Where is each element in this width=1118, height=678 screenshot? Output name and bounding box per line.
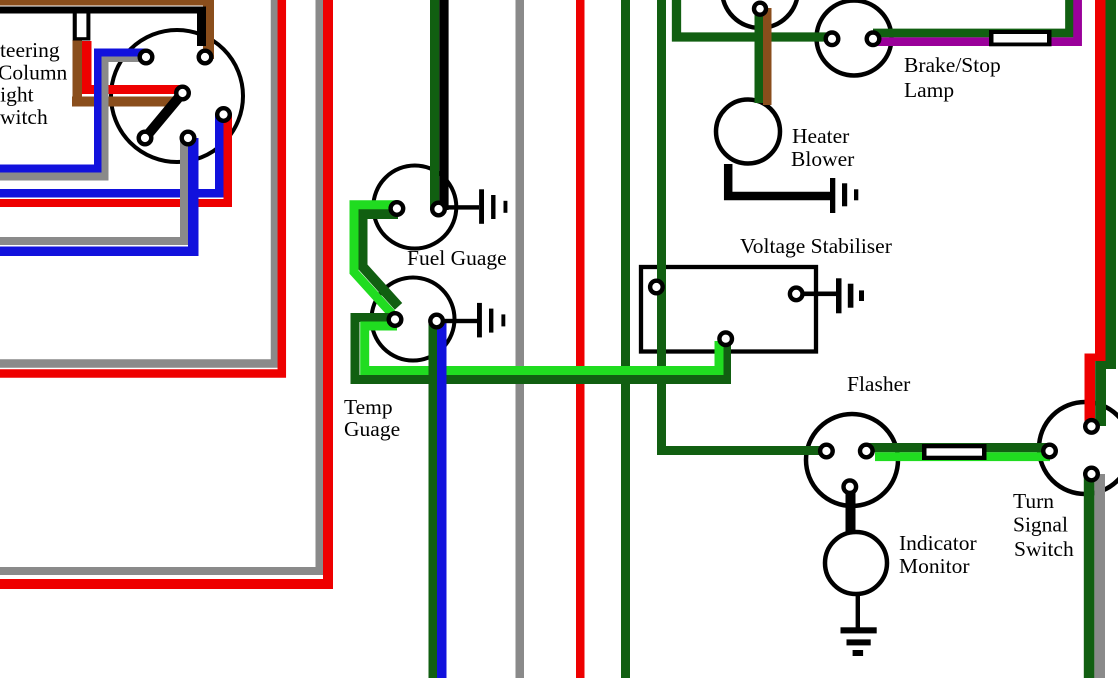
wire green right edge upper — [1106, 0, 1117, 369]
svg-text:Column: Column — [0, 60, 68, 84]
wire brown from connector down — [73, 40, 83, 102]
stabiliser pin left — [650, 281, 663, 294]
label steering column light switch — [0, 38, 68, 129]
wire gray pin 1 exit left — [0, 173, 109, 181]
flasher pin left — [820, 445, 833, 458]
ignition switch body (top, clipped) — [722, 0, 798, 28]
switch pin 2 — [199, 51, 212, 64]
wire red riser B — [0, 0, 328, 584]
wire green brake lamp to right — [873, 0, 1070, 33]
switch pin 3 — [176, 87, 189, 100]
label heater blower — [791, 124, 854, 171]
svg-text:Switch: Switch — [1014, 537, 1074, 561]
brake/stop lamp body — [817, 1, 892, 76]
wire red trunk vertical — [576, 0, 585, 678]
wire green top distribution — [677, 0, 833, 37]
heater blower ground symbol — [830, 178, 835, 213]
turn signal switch body — [1039, 402, 1118, 494]
wire purple brake lamp to right — [873, 0, 1078, 42]
wire gray turn signal down — [1094, 474, 1105, 678]
stabiliser pin bottom — [719, 332, 732, 345]
wire red from connector down — [82, 41, 92, 94]
wire green right edge lower to turn signal — [1095, 361, 1106, 426]
wire red pin 6 exit left — [0, 199, 232, 207]
temp gauge ground symbol — [477, 303, 482, 338]
wire gray switch pin 5 vertical — [180, 138, 188, 245]
wire green from temp gauge down — [429, 322, 438, 678]
stabiliser pin right — [790, 288, 803, 301]
svg-text:Fuel Guage: Fuel Guage — [407, 246, 507, 270]
flasher pin bottom — [844, 480, 857, 493]
temp gauge pin right — [430, 315, 443, 328]
wire brown feed top horizontal — [0, 0, 214, 6]
flasher body — [806, 414, 898, 506]
wire red switch pin 6 vertical — [224, 114, 233, 207]
brake lamp pin left — [826, 33, 839, 46]
wire green bundle fuel to temp bright — [354, 205, 398, 315]
wire gray riser A — [0, 0, 275, 364]
wire blue pin 6 exit left — [0, 189, 224, 198]
switch pin 1 — [140, 51, 153, 64]
wire gray riser B — [0, 0, 320, 571]
brake lamp pin right — [867, 33, 880, 46]
wire black to fuel gauge — [439, 0, 448, 210]
fuel gauge body — [373, 166, 456, 249]
label indicator monitor — [899, 531, 977, 578]
wire blue from temp gauge down — [437, 322, 447, 678]
stabiliser ground symbol — [836, 278, 842, 313]
temp gauge pin left — [389, 313, 402, 326]
wire green flasher to turn signal bright — [875, 452, 1050, 461]
svg-text:Temp: Temp — [344, 395, 393, 419]
wire blue switch pin 6 vertical — [215, 114, 224, 198]
turn signal pin left — [1043, 445, 1056, 458]
svg-text:Brake/Stop: Brake/Stop — [904, 53, 1001, 77]
wire green bundle temp to stabiliser bright — [365, 326, 719, 371]
svg-text:Turn: Turn — [1013, 489, 1054, 513]
wire blue switch pin 1 horizontal — [94, 49, 146, 57]
wire brown ignition to heater — [763, 8, 772, 105]
wire blue switch pin 5 vertical — [188, 138, 199, 256]
svg-text:Blower: Blower — [791, 147, 854, 171]
wire gray switch pin 1 horizontal — [102, 55, 147, 62]
wire green bundle temp to stabiliser dark — [355, 318, 727, 380]
fuse flasher circuit — [922, 444, 987, 460]
wire green trunk vertical 2 to flasher — [662, 0, 827, 451]
wire gray pin 5 exit left — [0, 237, 188, 245]
svg-text:Flasher: Flasher — [847, 372, 910, 396]
stabiliser ground wire — [800, 292, 836, 297]
svg-text:Light: Light — [0, 83, 34, 107]
wire green bundle fuel to temp dark — [363, 214, 399, 306]
ignition pin — [754, 3, 766, 15]
svg-text:Switch: Switch — [0, 105, 48, 129]
wire brown to switch centre — [72, 97, 175, 107]
wire green ignition to heater — [755, 8, 764, 103]
indicator monitor ground wire — [856, 594, 860, 629]
wire blue pin 1 exit left — [0, 165, 102, 173]
heater blower body — [716, 100, 780, 164]
turn signal pin top — [1085, 420, 1098, 433]
svg-text:Signal: Signal — [1013, 513, 1068, 537]
wire gray trunk vertical — [516, 0, 525, 678]
switch pin 5 — [182, 132, 195, 145]
wire gray pin 1 vertical — [102, 55, 109, 177]
switch lever — [145, 93, 183, 138]
label turn signal switch — [1013, 489, 1074, 561]
wire brown drop to switch pin 2 — [203, 4, 214, 59]
wire black drop to switch pin 2 — [197, 13, 206, 46]
wire red right edge lower to turn signal — [1085, 354, 1096, 424]
fuel gauge pin right — [432, 203, 445, 216]
steering column light switch body — [111, 30, 243, 162]
fuel gauge ground wire — [444, 205, 479, 209]
indicator monitor ground symbol — [841, 627, 877, 633]
temp gauge ground wire — [442, 319, 477, 323]
wire black feed top horizontal — [0, 7, 206, 14]
wire red riser A — [0, 0, 282, 374]
wire red right edge upper — [1095, 0, 1106, 361]
connector plug symbol — [73, 10, 91, 41]
switch pin 4 — [139, 132, 152, 145]
heater blower ground wire — [728, 164, 834, 196]
wire green flasher to turn signal dark — [866, 443, 1050, 452]
flasher pin right — [860, 445, 873, 458]
fuel gauge ground symbol — [479, 189, 484, 224]
wire green trunk vertical 1 — [621, 0, 630, 678]
temp gauge body — [372, 278, 455, 361]
wire green turn signal down — [1084, 474, 1095, 678]
label temp gauge — [344, 395, 400, 441]
svg-text:Guage: Guage — [344, 417, 400, 441]
flasher link to indicator monitor — [846, 489, 856, 534]
svg-text:Voltage Stabiliser: Voltage Stabiliser — [740, 234, 892, 258]
fuse brake circuit — [989, 30, 1052, 46]
wire red to switch pin 3 — [82, 85, 183, 94]
turn signal pin bottom — [1085, 468, 1098, 481]
svg-text:Lamp: Lamp — [904, 78, 954, 102]
svg-text:Steering: Steering — [0, 38, 60, 62]
svg-text:Indicator: Indicator — [899, 531, 977, 555]
switch pin 6 — [217, 108, 230, 121]
wire blue pin 5 exit left — [0, 247, 199, 257]
wire blue pin 1 vertical — [94, 49, 102, 169]
wire green to fuel gauge — [430, 0, 439, 210]
label brake/stop lamp — [904, 53, 1001, 102]
indicator monitor body — [825, 532, 887, 594]
svg-text:Heater: Heater — [792, 124, 849, 148]
fuel gauge pin left — [391, 202, 404, 215]
voltage stabiliser body — [641, 267, 816, 352]
svg-text:Monitor: Monitor — [899, 554, 969, 578]
